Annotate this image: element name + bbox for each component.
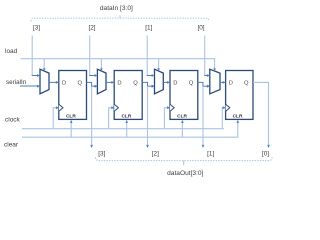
svg-text:clock: clock <box>5 117 21 124</box>
svg-text:D: D <box>229 81 233 87</box>
svg-text:[3]: [3] <box>33 24 40 31</box>
svg-text:CLR: CLR <box>66 113 76 119</box>
svg-text:[2]: [2] <box>152 151 159 158</box>
svg-text:[2]: [2] <box>88 24 95 31</box>
svg-text:Q: Q <box>244 81 249 87</box>
svg-text:CLR: CLR <box>177 113 187 119</box>
svg-text:CLR: CLR <box>233 113 243 119</box>
svg-text:clear: clear <box>4 142 19 149</box>
svg-text:[1]: [1] <box>207 151 214 158</box>
svg-text:[0]: [0] <box>262 151 269 158</box>
svg-text:[1]: [1] <box>145 24 152 31</box>
svg-text:CLR: CLR <box>121 113 131 119</box>
svg-text:serialIn: serialIn <box>6 79 27 86</box>
svg-text:Q: Q <box>133 81 138 87</box>
svg-text:D: D <box>117 81 121 87</box>
svg-text:dataOut[3:0]: dataOut[3:0] <box>167 170 203 177</box>
svg-text:Q: Q <box>189 81 194 87</box>
svg-text:Q: Q <box>78 81 83 87</box>
svg-text:D: D <box>62 81 66 87</box>
svg-text:D: D <box>173 81 177 87</box>
svg-text:load: load <box>5 48 18 55</box>
svg-text:[3]: [3] <box>98 151 105 158</box>
svg-text:[0]: [0] <box>197 24 204 31</box>
svg-text:dataIn [3:0]: dataIn [3:0] <box>100 5 133 12</box>
